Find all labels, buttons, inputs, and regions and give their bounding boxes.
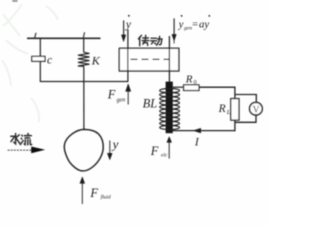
dashed shaft line inside box [131, 58, 170, 60]
svg-text:F: F [107, 88, 116, 102]
wire shaft to magnet [168, 36, 170, 82]
svg-text:ay: ay [199, 18, 209, 30]
label 动 [151, 36, 162, 45]
wire voltmeter branch bottom [235, 115, 256, 122]
svg-text:y: y [111, 137, 119, 152]
velocity arrow y-dot [121, 20, 125, 41]
force arrow F_fluid [80, 177, 85, 204]
label 流 [21, 134, 32, 145]
fixed support (ceiling) [27, 37, 101, 39]
hatch tick left [35, 33, 36, 38]
svg-text:K: K [91, 54, 101, 68]
wire coil top to R0 [173, 86, 184, 88]
svg-text:=: = [192, 19, 198, 30]
coil BL [160, 89, 180, 130]
wire voltmeter branch top [235, 95, 256, 103]
damper c body [32, 56, 45, 61]
buoy mass blob [64, 129, 103, 171]
wire spring to buoy [83, 66, 85, 130]
wire damper rod upper [39, 38, 41, 56]
velocity arrow y-dot-gen [172, 18, 176, 43]
wire damper rod lower [39, 61, 41, 82]
wire left shaft through box [127, 30, 129, 82]
resistor R0 [184, 85, 199, 91]
svg-text:fluid: fluid [101, 194, 111, 201]
wire RL bottom [234, 120, 236, 131]
wire bottom return [173, 130, 236, 132]
current arrow I [193, 128, 201, 133]
water flow arrow [8, 149, 33, 151]
transmission box [119, 48, 179, 71]
svg-text:gen: gen [184, 25, 192, 31]
magnet bar [166, 82, 173, 134]
cropped text artifact top edge [12, 0, 17, 2]
svg-text:R: R [218, 103, 226, 115]
displacement arrow y [107, 141, 112, 160]
svg-text:L: L [226, 109, 231, 116]
voltmeter V [250, 102, 263, 115]
wire mechanical horizontal [40, 81, 128, 83]
svg-text:F: F [150, 144, 159, 158]
svg-text:F: F [89, 186, 98, 200]
spring K [78, 52, 90, 66]
svg-text:elc: elc [161, 153, 168, 159]
wire spring rod upper [83, 38, 85, 52]
hatch tick right [83, 32, 84, 38]
wire R0 to corner [199, 87, 235, 98]
svg-text:y: y [125, 19, 132, 31]
svg-text:I: I [194, 136, 200, 148]
force arrow F_elc [167, 137, 172, 159]
svg-text:y: y [178, 19, 184, 30]
resistor RL [231, 99, 239, 121]
svg-text:c: c [47, 55, 52, 67]
svg-text:R: R [185, 74, 193, 86]
svg-text:gen: gen [117, 97, 126, 103]
watermark [2, 4, 58, 122]
force arrow F_gen [126, 84, 131, 105]
svg-text:BL: BL [143, 97, 158, 111]
svg-text:0: 0 [194, 80, 197, 86]
label 传 [138, 35, 148, 46]
label 水 [11, 134, 21, 145]
svg-text:V: V [253, 106, 260, 116]
